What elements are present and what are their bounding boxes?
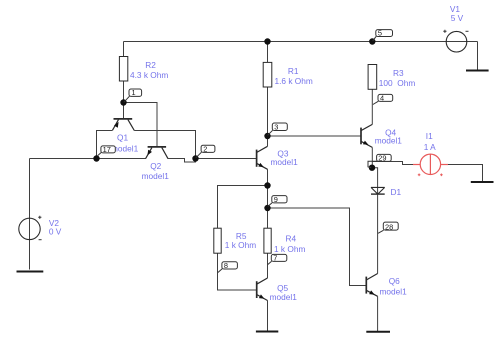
wire node 3 to Q4 base [268, 135, 362, 137]
svg-text:Q2: Q2 [150, 161, 161, 171]
node 29 callout [368, 154, 391, 168]
wire V2 riser [29, 159, 31, 270]
wire Q1 emitter to rail [97, 131, 113, 159]
junction node 9 dot b [264, 205, 270, 211]
node 5 callout [373, 29, 393, 42]
svg-text:R4: R4 [286, 234, 297, 244]
svg-text:5: 5 [378, 29, 382, 38]
svg-text:28: 28 [385, 222, 393, 231]
junction node 29 dot [369, 165, 375, 171]
svg-text:5 V: 5 V [451, 13, 464, 23]
node 9 callout [268, 195, 287, 207]
svg-text:2: 2 [203, 145, 207, 154]
junction top rail R1 dot [264, 38, 270, 44]
svg-text:1 k Ohm: 1 k Ohm [225, 240, 256, 250]
svg-text:Q6: Q6 [389, 276, 400, 286]
junction node 3 dot [264, 133, 270, 139]
junction node 2 dot [192, 155, 198, 161]
junction top rail R3 dot [369, 38, 375, 44]
node 28 callout [378, 222, 398, 233]
wire R4 bottom to Q5 collector [267, 253, 269, 278]
transistor Q2 [142, 147, 170, 181]
resistor R5 [214, 228, 256, 253]
wire Q1 base vertical [123, 103, 125, 120]
svg-text:29: 29 [378, 154, 386, 163]
transistor Q6 [366, 274, 407, 297]
wire Q4 emitter to I1 [372, 162, 413, 165]
current source I1 [413, 131, 448, 176]
svg-text:1: 1 [132, 88, 136, 97]
node 1 callout [124, 88, 142, 102]
wire Q6 emitter to ground [377, 296, 379, 331]
wire Q5 emitter to ground [267, 301, 269, 332]
transistor Q5 [257, 278, 297, 302]
svg-text:0 V: 0 V [49, 226, 62, 236]
wire node 9 vertical to R4 [267, 186, 269, 229]
node 17 callout [98, 145, 116, 156]
transistor Q1 [111, 119, 139, 153]
ground I1 [471, 181, 494, 183]
wire R1 bottom to node 3 and Q3 collector [267, 87, 269, 146]
node 2 callout [196, 145, 215, 158]
resistor R3 [368, 65, 415, 90]
wire R3 bottom to Q4 collector [371, 89, 373, 124]
svg-text:model1: model1 [142, 171, 170, 181]
wire R1 top leg [267, 42, 269, 63]
svg-text:model1: model1 [375, 136, 403, 146]
svg-text:model1: model1 [270, 292, 298, 302]
wire node 2 to Q3 base [196, 158, 257, 160]
wire R2 top leg [123, 42, 125, 57]
junction node 9 dot a [264, 182, 270, 188]
svg-text:8: 8 [224, 261, 228, 270]
transistor Q3 [257, 146, 298, 169]
ground V1 [466, 70, 489, 72]
wire V1 to ground drop [477, 42, 479, 71]
wire top rail node 5 [124, 41, 478, 43]
node 3 callout [268, 123, 288, 136]
voltage source V2 [19, 216, 62, 240]
wire R5 bottom to Q5 base [218, 253, 257, 290]
svg-text:1 A: 1 A [424, 142, 436, 152]
junction rail-Q1 dot [93, 155, 99, 161]
svg-text:17: 17 [103, 145, 111, 154]
svg-text:R2: R2 [145, 60, 156, 70]
svg-text:D1: D1 [391, 187, 402, 197]
svg-text:100 Ohm: 100 Ohm [379, 78, 416, 88]
wire Q3 emitter vertical [267, 169, 269, 185]
wire D1 cathode to Q6 collector [377, 194, 379, 273]
wire node 9 left branch to R5 [218, 186, 268, 229]
wire node 1 to Q2 base [124, 103, 158, 148]
transistor Q4 [361, 124, 402, 147]
node 8 callout [218, 261, 238, 272]
svg-text:1.6 k Ohm: 1.6 k Ohm [275, 76, 313, 86]
svg-text:7: 7 [273, 254, 277, 263]
svg-text:Q1: Q1 [117, 132, 128, 142]
wire Q2 collector jog to node 2 [168, 159, 196, 163]
wire node 9 right branch to Q6 base [268, 208, 367, 286]
svg-text:model1: model1 [271, 157, 299, 167]
node 7 callout [268, 254, 287, 265]
svg-text:R3: R3 [393, 68, 404, 78]
svg-text:9: 9 [274, 195, 278, 204]
svg-text:4.3 k Ohm: 4.3 k Ohm [130, 70, 168, 80]
svg-text:model1: model1 [380, 287, 408, 297]
wire I1 right to ground [448, 165, 483, 182]
junction node 1 dot [120, 99, 126, 105]
ground V2 [17, 271, 44, 273]
ground Q6 [366, 331, 390, 333]
resistor R4 [264, 228, 306, 254]
svg-text:R1: R1 [288, 66, 299, 76]
svg-text:4: 4 [380, 94, 384, 103]
wire Q1 collector to node 2 [134, 131, 195, 159]
wire node 29 jog to D1 anode [372, 168, 378, 194]
wire Q4 emitter vertical [371, 147, 373, 167]
svg-text:3: 3 [274, 123, 278, 132]
diode D1 [371, 187, 401, 197]
svg-text:I1: I1 [426, 131, 433, 141]
wire rail V2 to Q2 emitter [30, 158, 147, 160]
wire R2 bottom leg to node 1 [123, 81, 125, 103]
ground Q5 [256, 331, 278, 333]
node 4 callout [373, 94, 393, 105]
resistor R2 [119, 57, 168, 82]
svg-text:1 k Ohm: 1 k Ohm [274, 244, 305, 254]
voltage source V1 [443, 4, 468, 52]
resistor R1 [263, 62, 313, 87]
